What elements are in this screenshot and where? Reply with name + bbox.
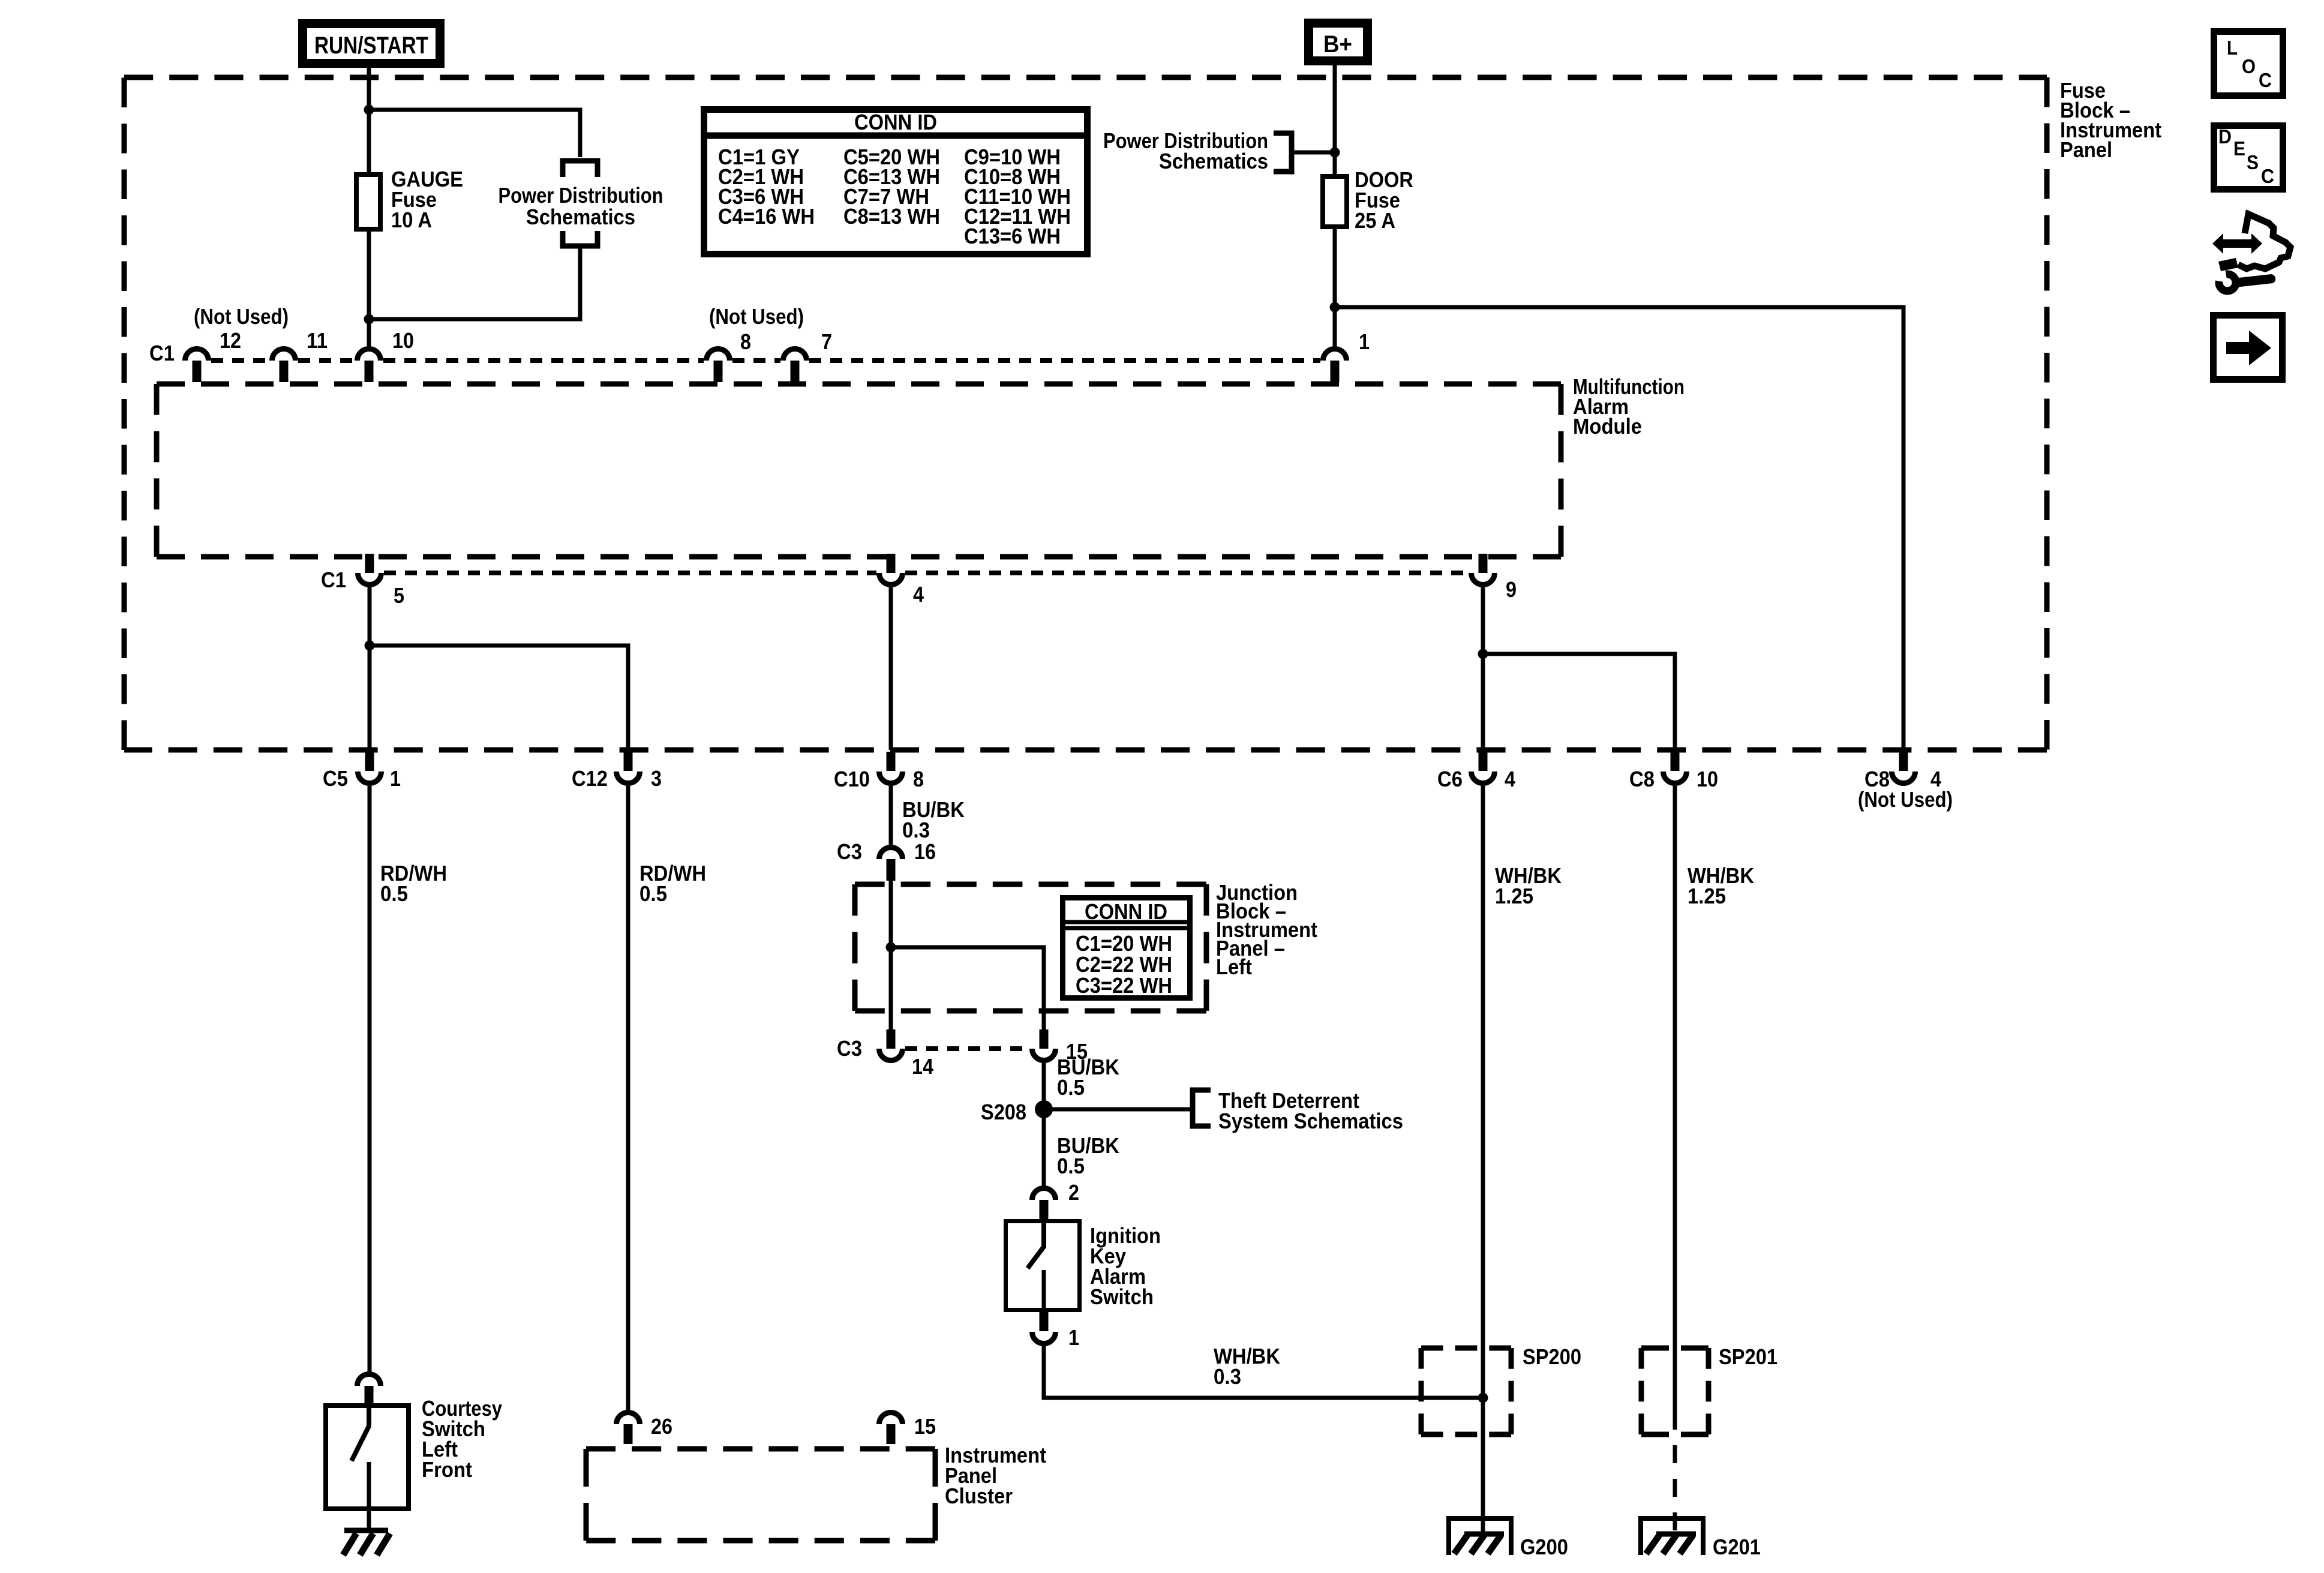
svg-text:Front: Front [422, 1457, 472, 1482]
svg-text:(Not Used): (Not Used) [1858, 787, 1953, 812]
wire inside junction block pin16 to pin14 [889, 873, 893, 1033]
svg-text:1: 1 [390, 766, 401, 791]
wire label WH/BK 1.25 (left) [1495, 863, 1562, 908]
fuse GAUGE 10A [356, 175, 380, 229]
wire WH/BK 1.25 from C6 pin 4 to G200 [1481, 786, 1485, 1534]
svg-text:0.5: 0.5 [639, 881, 667, 906]
wire branch right to C8 pin 4 [1335, 307, 1903, 750]
labels C8 10 [1629, 767, 1718, 791]
node junction B+ bracket [1330, 148, 1340, 158]
svg-text:G201: G201 [1713, 1535, 1761, 1559]
svg-text:1: 1 [1359, 329, 1370, 354]
svg-text:7: 7 [821, 329, 832, 354]
connector pin 1 ignition key alarm switch [1032, 1312, 1056, 1344]
svg-text:26: 26 [651, 1414, 672, 1439]
labels C10 8 [834, 767, 924, 791]
svg-text:10: 10 [392, 328, 414, 353]
label Theft Deterrent System Schematics [1218, 1088, 1403, 1133]
table CONN ID junction block [1062, 898, 1190, 998]
connector pin 26 instrument panel cluster [617, 1413, 640, 1445]
svg-text:0.3: 0.3 [1214, 1364, 1241, 1389]
svg-text:C: C [2259, 69, 2272, 91]
off-page reference bracket lower (power distribution) [563, 231, 597, 246]
svg-text:1.25: 1.25 [1495, 884, 1533, 908]
label DOOR Fuse 25 A [1355, 167, 1413, 233]
connector C3 pin 14 [879, 1029, 903, 1061]
svg-text:25 A: 25 A [1355, 208, 1395, 233]
svg-text:4: 4 [1505, 767, 1515, 791]
connector C1 pin 8 (not used) [707, 349, 730, 383]
wire RD/WH 0.5 from C5 pin 1 to courtesy switch [368, 786, 372, 1373]
svg-text:CONN ID: CONN ID [1085, 899, 1167, 924]
svg-text:12: 12 [220, 328, 241, 353]
wire S208 to theft deterrent reference [1044, 1107, 1191, 1112]
wire branch to power distribution reference (top) [369, 110, 580, 157]
wire B+ down to DOOR fuse [1333, 64, 1337, 176]
svg-text:8: 8 [913, 767, 924, 791]
svg-text:S208: S208 [981, 1100, 1026, 1124]
svg-text:C12: C12 [572, 766, 608, 791]
svg-text:B+: B+ [1323, 31, 1352, 58]
wire WH/BK 1.25 from C8 pin 10 to SP201 [1673, 786, 1677, 1412]
multifunction alarm module dashed box [157, 384, 1561, 557]
connector pin 15 instrument panel cluster [879, 1413, 903, 1445]
wire DOOR fuse to pin 1 [1333, 226, 1337, 347]
wire label BU/BK 0.5 (above S208) [1057, 1055, 1119, 1100]
svg-text:CONN ID: CONN ID [854, 110, 937, 134]
ground G201 [1641, 1518, 1703, 1555]
wire pin 4 down to C10 pin 8 [889, 587, 893, 750]
labels C6 4 [1437, 767, 1515, 791]
connector C1 pin 12 (not used) [185, 349, 209, 383]
junction block dashed box [855, 884, 1206, 1011]
connector C6 pin 4 [1472, 752, 1495, 784]
labels C12 3 [572, 766, 662, 791]
connector C1 pin 1 [1323, 349, 1347, 383]
svg-text:E: E [2233, 137, 2245, 160]
svg-text:11: 11 [307, 328, 328, 353]
label GAUGE Fuse 10 A [391, 167, 463, 232]
svg-text:C10: C10 [834, 767, 870, 791]
svg-text:4: 4 [913, 582, 924, 607]
label Junction Block - Instrument Panel - Left [1216, 880, 1317, 979]
node junction SP200 [1478, 1393, 1488, 1403]
svg-text:SP201: SP201 [1719, 1344, 1777, 1369]
wire label WH/BK 0.3 [1214, 1344, 1280, 1389]
label Power Distribution Schematics (right) [1103, 128, 1268, 173]
ground G200 [1449, 1518, 1511, 1555]
node junction GAUGE loop return [364, 314, 374, 325]
connector C5 pin 1 [358, 752, 382, 784]
fuse DOOR 25A [1323, 176, 1347, 227]
svg-text:0.5: 0.5 [1057, 1075, 1085, 1100]
connector C1 pin 9 [1472, 554, 1495, 585]
wire WH/BK 0.3 ignition switch to SP200 [1044, 1346, 1483, 1398]
svg-text:15: 15 [914, 1414, 936, 1439]
wire branch to pin 15 [891, 947, 1044, 1033]
connector C12 pin 3 [617, 752, 640, 784]
wire RD/WH 0.5 from C12 pin 3 to cluster pin 26 [626, 786, 630, 1410]
svg-text:Schematics: Schematics [1159, 149, 1268, 173]
power terminal B+ [1309, 23, 1368, 61]
svg-text:Power Distribution: Power Distribution [499, 183, 663, 208]
off-page reference bracket (power distribution schematics right) [1274, 133, 1335, 172]
splice pack SP201 dashed box [1641, 1348, 1709, 1434]
svg-text:RUN/START: RUN/START [314, 32, 428, 59]
connector row C1 bottom dotted line [384, 571, 1469, 575]
svg-text:G200: G200 [1520, 1535, 1568, 1559]
labels C5 1 [323, 766, 401, 791]
svg-text:D: D [2218, 125, 2232, 148]
connector C1 pin 4 [879, 554, 903, 585]
connector C10 pin 8 [879, 752, 903, 784]
wire GAUGE fuse to connector C1 pin 10 [367, 229, 371, 319]
svg-text:C1: C1 [321, 568, 346, 592]
connector C3 pin 16 [879, 848, 903, 881]
svg-text:10 A: 10 A [391, 208, 432, 232]
wire branch to C8 pin 10 [1483, 654, 1675, 750]
labels C3 16 [837, 839, 936, 864]
svg-text:C4=16 WH: C4=16 WH [718, 204, 815, 229]
node junction DOOR fuse branch [1330, 302, 1340, 313]
off-page reference bracket upper (power distribution) [563, 161, 597, 177]
svg-text:(Not Used): (Not Used) [194, 304, 289, 329]
icon arrow box [2214, 316, 2283, 380]
label Ignition Key Alarm Switch [1090, 1223, 1161, 1309]
svg-text:Left: Left [1216, 954, 1252, 979]
svg-text:C: C [2261, 165, 2274, 187]
label Courtesy Switch Left Front [422, 1396, 502, 1482]
wire pin 5 down [368, 587, 372, 750]
wire label BU/BK 0.5 (below S208) [1057, 1133, 1119, 1178]
svg-text:C3=22 WH: C3=22 WH [1076, 973, 1172, 998]
node junction S-branch in junction block [886, 942, 896, 953]
wire BU/BK 0.5 pin 15 to S208 [1042, 1063, 1046, 1187]
svg-text:0.5: 0.5 [1057, 1154, 1085, 1178]
svg-text:8: 8 [740, 329, 751, 354]
wire branch to C12 pin 3 [370, 646, 628, 750]
svg-text:C5: C5 [323, 766, 348, 791]
svg-text:Panel: Panel [2060, 137, 2112, 162]
svg-text:0.5: 0.5 [380, 881, 408, 906]
connector row C3 dotted line [905, 1046, 1029, 1051]
connector row C1 dotted line [211, 358, 1320, 363]
connector courtesy switch [358, 1374, 381, 1406]
fuse block - instrument panel dashed outline [124, 77, 2047, 750]
connector C1 pin 7 (not used) [783, 349, 807, 383]
ground courtesy switch [343, 1530, 390, 1555]
power terminal RUN/START [303, 24, 440, 64]
svg-text:Switch: Switch [1090, 1284, 1154, 1309]
labels C3 14 [837, 1036, 933, 1079]
svg-text:3: 3 [651, 766, 662, 791]
svg-text:14: 14 [912, 1054, 933, 1079]
ignition key alarm switch [1006, 1219, 1080, 1312]
svg-text:C13=6 WH: C13=6 WH [964, 224, 1061, 248]
svg-text:1.25: 1.25 [1688, 884, 1726, 908]
svg-text:C3: C3 [837, 839, 862, 864]
svg-text:Schematics: Schematics [526, 205, 635, 229]
splice S208 [1035, 1100, 1053, 1118]
instrument panel cluster dashed box [586, 1449, 935, 1541]
wire label RD/WH 0.5 (left) [380, 861, 447, 906]
label Fuse Block - Instrument Panel [2060, 78, 2161, 162]
connector C1 pin 10 [358, 349, 381, 383]
labels C8 4 (Not Used) [1858, 767, 1953, 812]
node junction pin 9 branch [1478, 649, 1488, 659]
icon DESC box [2214, 125, 2283, 190]
svg-text:Cluster: Cluster [945, 1484, 1013, 1508]
connector C1 pin 5 [358, 554, 382, 585]
node junction at GAUGE fuse top branch [364, 105, 374, 115]
off-page reference bracket theft deterrent [1193, 1090, 1211, 1126]
wire BU/BK 0.3 from C10 pin 8 to junction block [889, 786, 893, 846]
svg-text:5: 5 [394, 583, 404, 608]
table CONN ID fuse block connectors [701, 110, 1091, 254]
connector pin 2 ignition key alarm switch [1032, 1188, 1056, 1220]
svg-text:0.3: 0.3 [902, 818, 930, 842]
svg-text:16: 16 [914, 839, 936, 864]
wire down to pin 10 [367, 319, 371, 347]
splice pack SP200 dashed box [1421, 1348, 1511, 1434]
connector C3 pin 15 [1032, 1029, 1056, 1061]
svg-text:9: 9 [1506, 577, 1517, 602]
wire pin 9 down [1481, 587, 1485, 750]
wire from lower bracket back to GAUGE fuse bottom [369, 247, 580, 319]
svg-text:L: L [2227, 37, 2238, 59]
svg-text:2: 2 [1068, 1180, 1079, 1205]
svg-text:SP200: SP200 [1523, 1344, 1581, 1369]
svg-text:C6: C6 [1437, 767, 1463, 791]
label Power Distribution Schematics (left) [499, 183, 663, 229]
wire label BU/BK 0.3 [902, 797, 965, 842]
svg-text:C8=13 WH: C8=13 WH [843, 204, 940, 229]
svg-text:Module: Module [1573, 414, 1642, 439]
courtesy switch left front [326, 1403, 409, 1511]
svg-text:S: S [2247, 151, 2259, 173]
svg-text:C1: C1 [149, 341, 175, 365]
svg-text:(Not Used): (Not Used) [709, 304, 804, 329]
svg-text:O: O [2242, 55, 2256, 77]
connector C1 pin 11 (not used) [272, 349, 296, 383]
node junction pin 5 branch [365, 641, 375, 651]
svg-text:10: 10 [1697, 767, 1718, 791]
svg-text:C3: C3 [837, 1036, 862, 1061]
wire label WH/BK 1.25 (right) [1688, 863, 1754, 908]
icon LOC box [2214, 32, 2283, 96]
connector C8 pin 10 [1664, 752, 1687, 784]
wire RUN/START to GAUGE fuse [367, 64, 371, 175]
dashed wire SP201 to G201 [1673, 1412, 1677, 1533]
label Multifunction Alarm Module [1573, 374, 1685, 439]
svg-text:C8: C8 [1629, 767, 1655, 791]
svg-text:1: 1 [1068, 1325, 1079, 1350]
wire courtesy switch to ground [367, 1511, 371, 1532]
label Instrument Panel Cluster [945, 1443, 1046, 1508]
svg-text:System Schematics: System Schematics [1218, 1109, 1403, 1133]
connector C8 pin 4 (not used) [1892, 752, 1915, 784]
wire label RD/WH 0.5 (second) [639, 861, 706, 906]
icon service information (arrow wrench) [2212, 214, 2290, 291]
